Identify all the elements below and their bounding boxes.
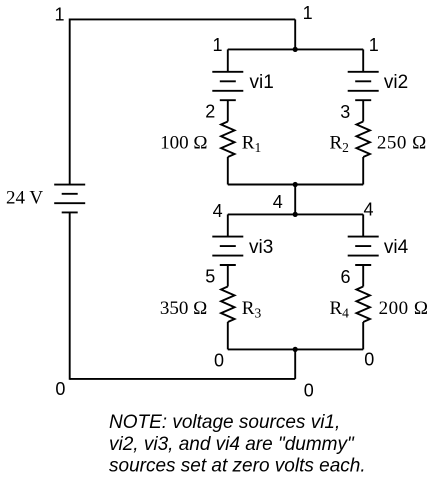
battery 24V plates	[54, 185, 85, 213]
battery vi2 plates	[348, 72, 379, 100]
wire bottom horizontal (node 0)	[70, 378, 296, 380]
resistor R1 zigzag	[221, 122, 235, 158]
wire R4 bottom stub to rail 4	[362, 322, 364, 349]
svg-text:0: 0	[304, 381, 314, 401]
svg-text:vi2, vi3, and vi4 are "dummy": vi2, vi3, and vi4 are "dummy"	[109, 434, 355, 455]
junction dot node 0	[293, 347, 298, 352]
wire center vertical bottom (rail 4 to bottom wire)	[294, 349, 296, 379]
svg-text:R2: R2	[329, 132, 348, 155]
wire rail 4 (node 0 rail, bottoms of R3 and R4)	[228, 348, 363, 350]
svg-text:4: 4	[273, 192, 283, 212]
wire vi2 top stub	[362, 49, 364, 71]
svg-text:R4: R4	[329, 298, 349, 321]
junction dot node 1	[293, 47, 298, 52]
svg-text:R3: R3	[242, 298, 262, 321]
svg-text:250 Ω: 250 Ω	[377, 133, 427, 154]
wire vi4 top stub	[362, 214, 364, 236]
wire R3 bottom stub to rail 4	[227, 322, 229, 349]
svg-text:vi3: vi3	[249, 237, 273, 258]
svg-text:0: 0	[364, 350, 374, 370]
svg-text:vi4: vi4	[384, 237, 409, 258]
wire top horizontal from node 1 corner to center	[70, 18, 296, 20]
svg-text:1: 1	[369, 35, 379, 55]
svg-text:sources set at zero volts each: sources set at zero volts each.	[109, 456, 366, 477]
wire rail 1 (node 1 rail, tops of vi1 and vi2)	[228, 48, 363, 50]
wire left vertical lower (24V battery to node 0)	[69, 212, 71, 379]
wire center vertical stub (top wire down to rail 1)	[294, 19, 296, 49]
battery vi3 plates	[212, 237, 243, 265]
wire vi2 bottom stub to R2	[362, 100, 364, 121]
svg-text:3: 3	[340, 102, 350, 122]
svg-text:100 Ω: 100 Ω	[160, 132, 207, 153]
wire R2 bottom stub to rail 2	[362, 157, 364, 185]
svg-text:1: 1	[54, 5, 64, 25]
svg-text:2: 2	[205, 102, 215, 122]
wire vi3 bottom stub to R3	[227, 265, 229, 287]
svg-text:350 Ω: 350 Ω	[160, 298, 207, 319]
battery vi1 plates	[212, 72, 243, 100]
svg-text:1: 1	[303, 3, 313, 23]
wire rail 2 (bottoms of R1 and R2)	[228, 184, 363, 186]
resistor R2 zigzag	[356, 122, 370, 158]
junction dot node 4	[293, 212, 298, 217]
wire rail 3 (node 4 rail, tops of vi3 and vi4)	[228, 213, 363, 215]
wire vi4 bottom stub to R4	[362, 265, 364, 287]
svg-text:0: 0	[55, 379, 65, 399]
svg-text:0: 0	[214, 351, 224, 371]
wire center vertical (rail 2 to rail 3, node 4)	[294, 185, 296, 215]
junction dot rail 2	[293, 182, 298, 187]
svg-text:R1: R1	[242, 132, 261, 155]
resistor R3 zigzag	[221, 287, 235, 323]
wire left vertical upper (node 1 to 24V battery)	[69, 19, 71, 185]
wire vi1 top stub	[227, 49, 229, 71]
svg-text:NOTE: voltage sources vi1,: NOTE: voltage sources vi1,	[109, 412, 340, 433]
svg-text:4: 4	[213, 201, 223, 221]
svg-text:200 Ω: 200 Ω	[379, 298, 429, 319]
resistor R4 zigzag	[356, 287, 370, 323]
wire R1 bottom stub to rail 2	[227, 157, 229, 185]
svg-text:24 V: 24 V	[6, 188, 43, 209]
wire vi3 top stub	[227, 214, 229, 236]
svg-text:vi1: vi1	[250, 72, 274, 93]
battery vi4 plates	[348, 237, 379, 265]
svg-text:4: 4	[363, 200, 373, 220]
svg-text:1: 1	[212, 35, 222, 55]
wire vi1 bottom stub to R1	[227, 100, 229, 121]
svg-text:5: 5	[205, 267, 215, 287]
svg-text:vi2: vi2	[384, 72, 408, 93]
svg-text:6: 6	[340, 267, 350, 287]
